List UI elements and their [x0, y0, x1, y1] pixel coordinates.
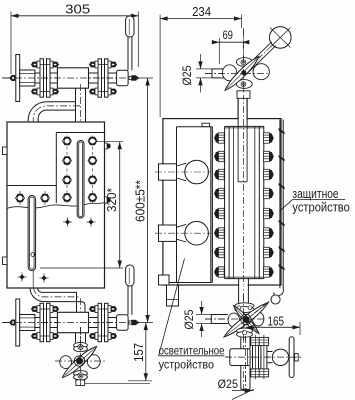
svg-text:устройство: устройство	[159, 357, 215, 371]
svg-text:320*: 320*	[105, 188, 119, 212]
svg-text:устройство: устройство	[292, 199, 349, 214]
svg-text:Ø25: Ø25	[218, 377, 239, 391]
svg-text:165: 165	[267, 314, 284, 328]
svg-text:600±5**: 600±5**	[134, 180, 148, 222]
svg-text:157: 157	[132, 343, 146, 362]
svg-text:305: 305	[65, 2, 90, 17]
svg-text:Ø25: Ø25	[180, 65, 194, 85]
svg-text:69: 69	[222, 28, 233, 42]
svg-text:Ø25: Ø25	[182, 309, 196, 329]
svg-text:234: 234	[192, 4, 211, 19]
